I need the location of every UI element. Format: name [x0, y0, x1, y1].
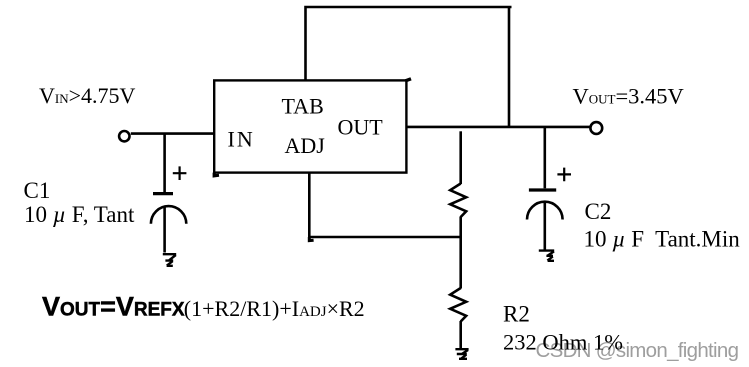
wire: input line from terminal to IN pin	[131, 132, 214, 135]
capacitor C2: curved plate (arc)	[527, 202, 563, 220]
svg-text:TAB: TAB	[282, 94, 324, 119]
svg-text:OUT: OUT	[338, 115, 384, 140]
svg-text:VOUT=3.45V: VOUT=3.45V	[573, 83, 684, 108]
svg-text:VIN>4.75V: VIN>4.75V	[39, 83, 136, 108]
svg-text:C1: C1	[24, 178, 51, 203]
capacitor C2: flat plate	[529, 188, 556, 191]
corner tick top-right of U1	[406, 79, 412, 81]
resistor R2 (zigzag)	[450, 288, 466, 322]
capacitor C1: curved plate (arc)	[151, 206, 186, 224]
svg-text:(1+R2/R1)+IADJ×R2: (1+R2/R1)+IADJ×R2	[184, 296, 365, 321]
wire: R2 bottom to ground	[459, 321, 462, 349]
ground symbol below C2	[539, 251, 554, 261]
svg-text:R2: R2	[503, 302, 530, 327]
wire: R1 bottom to ADJ junction	[459, 217, 462, 239]
wire: TAB top loop (U1 top to output node)	[306, 7, 512, 127]
svg-text:232 Ohm 1%: 232 Ohm 1%	[503, 330, 623, 355]
capacitor C2: lower lead to ground	[543, 203, 546, 250]
terminal: input (open circle)	[119, 131, 129, 141]
svg-text:VOUT=VREFX: VOUT=VREFX	[42, 292, 185, 322]
svg-text:IN: IN	[228, 127, 255, 152]
capacitor C1: lower lead to ground	[163, 207, 166, 253]
svg-text:10 µ F, Tant: 10 µ F, Tant	[24, 202, 135, 227]
terminal: output (open circle)	[590, 122, 602, 134]
corner tick bottom-left of U1	[214, 173, 219, 176]
plus sign for C1 polarity	[173, 166, 187, 180]
svg-text:ADJ: ADJ	[285, 133, 326, 158]
capacitor C2: lead from output line	[543, 127, 546, 188]
regulator U1 box	[214, 80, 406, 172]
svg-text:10 µ F Tant.Min: 10 µ F Tant.Min	[584, 227, 741, 252]
corner tick at ADJ wire elbow	[309, 237, 313, 241]
wire: junction down to resistor R2	[459, 237, 462, 289]
wire: output line from OUT pin to output terminal	[407, 126, 591, 129]
resistor R1 (zigzag)	[450, 184, 466, 218]
plus sign for C2 polarity	[557, 168, 571, 182]
ground symbol below C1	[163, 254, 176, 266]
wire: ADJ pin vertical drop	[308, 173, 311, 237]
wire: ADJ horizontal to junction	[308, 236, 461, 239]
capacitor C1: flat plate	[153, 192, 173, 195]
svg-text:C2: C2	[585, 199, 612, 224]
capacitor C1: lead from input line	[163, 134, 166, 192]
wire: output node down to resistor R1	[459, 131, 462, 184]
ground symbol below R2	[455, 349, 468, 359]
